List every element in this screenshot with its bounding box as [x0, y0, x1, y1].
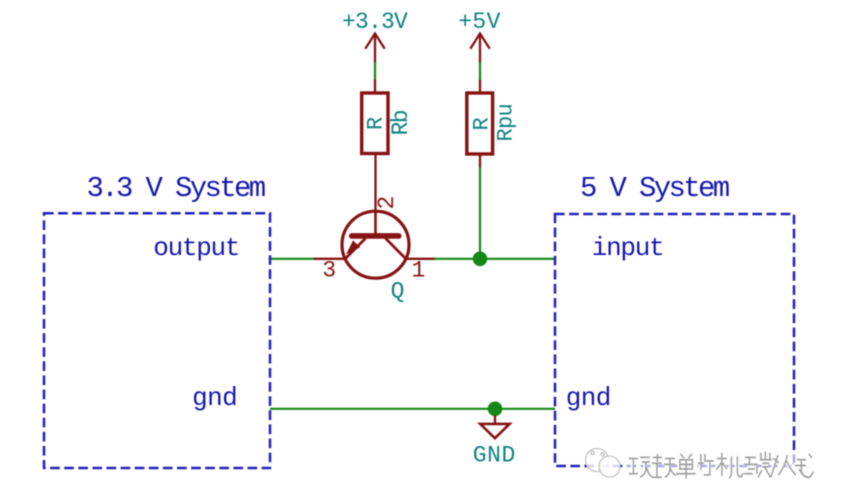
pin Rpu bottom	[479, 153, 481, 169]
gnd stub wire	[494, 409, 496, 417]
svg-text:Q: Q	[391, 279, 405, 305]
svg-text:R: R	[470, 117, 495, 130]
collector diagonal	[386, 238, 406, 258]
power flag +3.3V	[365, 34, 384, 64]
pin 1 stub	[406, 258, 437, 260]
pin 3 stub	[313, 258, 346, 260]
emitter diagonal	[345, 238, 365, 258]
wire +5V to Rpu	[479, 62, 481, 80]
svg-text:GND: GND	[473, 443, 516, 469]
wire gnd bus	[270, 408, 555, 410]
pin Rb top	[374, 80, 376, 94]
base line inside	[374, 211, 377, 234]
svg-text:1: 1	[411, 258, 425, 284]
gnd stub pin	[494, 416, 496, 424]
wire output to Q	[270, 258, 314, 260]
svg-text:R: R	[364, 117, 389, 130]
resistor Rb	[362, 93, 388, 154]
svg-text:Rpu: Rpu	[494, 104, 519, 142]
base bar	[349, 233, 402, 239]
junction node at Rpu	[473, 251, 488, 266]
watermark text grey edge	[629, 452, 814, 479]
watermark logo	[586, 449, 621, 478]
transistor Q	[342, 211, 409, 278]
box 5V system	[555, 214, 794, 466]
svg-text:gnd: gnd	[566, 383, 611, 413]
svg-text:3: 3	[322, 258, 336, 284]
svg-text:5 V System: 5 V System	[580, 172, 729, 205]
wire Rpu to junction	[479, 167, 481, 259]
svg-text:input: input	[592, 233, 664, 263]
body circle	[342, 211, 409, 278]
svg-text:gnd: gnd	[192, 383, 237, 413]
ground symbol GND	[480, 424, 509, 438]
watermark text white body	[628, 451, 813, 478]
emitter arrow	[346, 240, 360, 254]
wire +3.3V to Rb	[374, 62, 376, 80]
svg-text:output: output	[153, 233, 239, 263]
watermark text backdrop	[625, 452, 818, 476]
wire Q to input	[434, 258, 555, 260]
junction node at gnd	[488, 402, 503, 417]
svg-text:+5V: +5V	[458, 9, 501, 35]
pin Rpu top	[479, 80, 481, 94]
power flag +5V	[470, 34, 489, 64]
wire Rb to Q pin 2	[374, 153, 376, 211]
svg-text:Rb: Rb	[388, 110, 414, 135]
svg-text:2: 2	[374, 196, 400, 210]
svg-text:3.3 V System: 3.3 V System	[87, 172, 265, 205]
resistor Rpu	[467, 93, 493, 154]
box 3.3V system	[44, 213, 270, 468]
svg-text:+3.3V: +3.3V	[342, 9, 408, 35]
